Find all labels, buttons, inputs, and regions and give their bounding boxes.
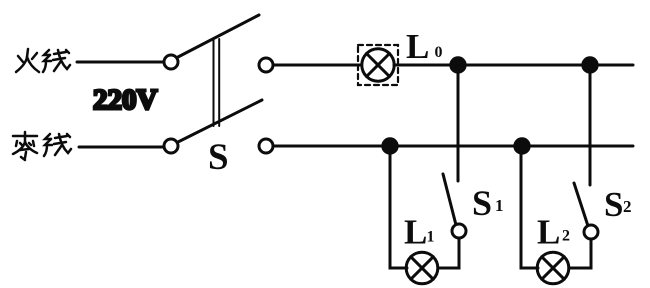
svg-text:L: L (537, 213, 560, 252)
wire L2 to node D (521, 146, 538, 268)
svg-text:1: 1 (495, 196, 504, 215)
wire neutral lead (79, 146, 163, 149)
junction node A (live bus / S1 branch) (451, 58, 465, 72)
terminal circle right upper (259, 58, 273, 72)
svg-text:220V: 220V (93, 84, 158, 116)
label L0 (406, 27, 443, 66)
label L1 (404, 213, 435, 252)
svg-text:L: L (406, 27, 429, 66)
junction node B (live bus / S2 branch) (583, 58, 597, 72)
switch S2 blade (574, 183, 588, 226)
wire neutral bus (273, 145, 633, 148)
wire S2 to L2 (568, 239, 591, 268)
svg-text:0: 0 (435, 44, 443, 61)
lamp L1 (406, 252, 438, 284)
wire L1 to node C (390, 146, 407, 268)
svg-text:S: S (472, 183, 492, 223)
switch S lower blade (178, 100, 262, 142)
switch S upper blade (178, 15, 259, 57)
label S2 (604, 185, 632, 224)
svg-text:1: 1 (427, 229, 435, 246)
svg-text:L: L (404, 213, 427, 252)
lamp L0 dashed box (358, 45, 398, 85)
switch S2 terminal circle (584, 225, 598, 239)
switch S mechanical link (double line) (214, 39, 220, 126)
svg-text:S: S (604, 185, 623, 224)
label L2 (537, 213, 570, 252)
svg-text:2: 2 (562, 228, 570, 245)
lamp L2 (537, 252, 569, 284)
wire S2 feed from node B (589, 65, 592, 185)
wire live bus middle segment (394, 64, 633, 67)
wire live bus left segment (273, 64, 362, 67)
terminal circle S lower-left (164, 139, 178, 153)
svg-text:S: S (208, 137, 229, 178)
wire live lead (77, 61, 163, 64)
label S1 (472, 183, 504, 223)
wire S1 to L1 (437, 238, 459, 268)
junction node D (neutral / L2 branch) (515, 139, 529, 153)
junction node C (neutral / L1 branch) (383, 139, 397, 153)
terminal circle right lower (259, 139, 273, 153)
switch S1 terminal circle (452, 224, 466, 238)
wire S1 feed from node A (457, 65, 460, 181)
svg-text:2: 2 (623, 197, 632, 216)
lamp L0 (362, 49, 394, 81)
switch S1 blade (443, 174, 456, 225)
label 火线 (live wire) (16, 49, 70, 72)
terminal circle S upper-left (164, 55, 178, 69)
label 零线 (neutral wire) (13, 132, 71, 160)
